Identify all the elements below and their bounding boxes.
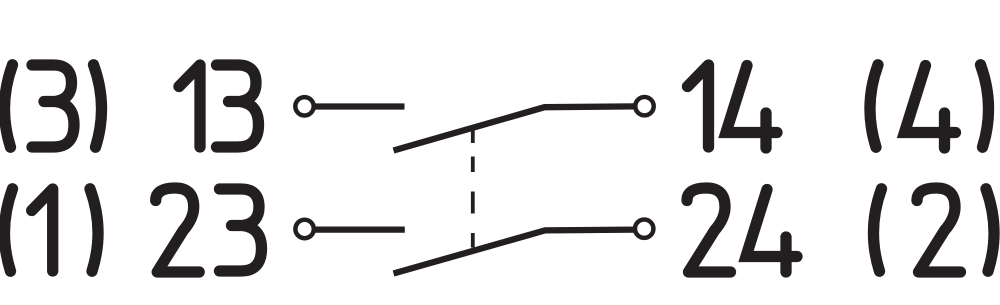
- terminal circle 24: [635, 220, 653, 238]
- wire from terminal 23: [314, 226, 405, 232]
- mechanical linkage (dashed) between both contact arms: [471, 129, 475, 248]
- contact 13-14 (NO contact, top): [295, 97, 653, 151]
- switch arm 23-24 with wire to terminal 24: [394, 230, 636, 274]
- label 24: [687, 188, 797, 272]
- terminal circle 23: [295, 220, 313, 238]
- terminal circle 13: [295, 97, 313, 115]
- terminal circle 14: [635, 97, 653, 115]
- label (2): [873, 188, 994, 272]
- contact 23-24 (NO contact, bottom): [295, 220, 653, 274]
- label 23: [156, 188, 262, 272]
- label (3): [4, 65, 101, 147]
- wire from terminal 13: [314, 103, 405, 109]
- label 14: [688, 65, 778, 148]
- label (4): [870, 65, 989, 148]
- label (1): [4, 189, 98, 271]
- switch arm 13-14 with wire to terminal 14: [394, 106, 636, 150]
- label 13: [179, 65, 259, 147]
